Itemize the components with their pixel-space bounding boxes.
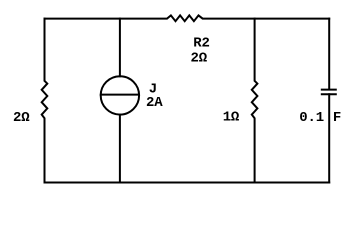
svg-text:2Ω: 2Ω [13,110,30,126]
svg-text:2A: 2A [146,95,163,111]
svg-text:2Ω: 2Ω [191,51,208,67]
svg-text:0.1: 0.1 [299,110,324,126]
svg-text:R2: R2 [193,36,209,52]
svg-text:F: F [333,110,341,126]
svg-text:1Ω: 1Ω [223,110,240,126]
